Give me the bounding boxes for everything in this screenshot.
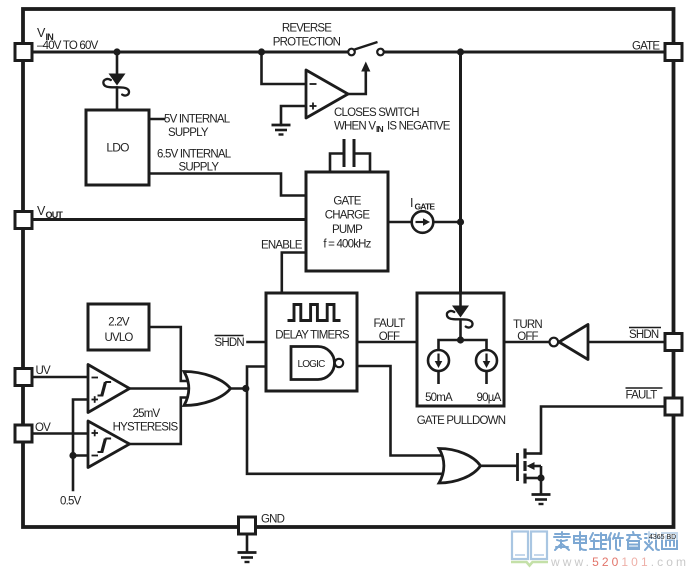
- watermark chinese characters: [554, 532, 677, 550]
- delay timers box U5: [266, 293, 357, 391]
- label FAULT right with overline: [626, 388, 663, 402]
- wire comparator output to switch arrow: [348, 71, 366, 94]
- svg-text:50mA: 50mA: [425, 392, 453, 404]
- node 0.5V junction: [69, 452, 76, 459]
- svg-text:LDO: LDO: [106, 141, 129, 155]
- label SHDN left with overline: [215, 336, 245, 350]
- svg-text:DELAY TIMERS: DELAY TIMERS: [275, 330, 350, 342]
- ground below MOSFET: [532, 495, 551, 505]
- svg-text:OUT: OUT: [46, 210, 64, 220]
- wire charge pump to IGATE source: [388, 221, 412, 224]
- svg-text:f = 400kHz: f = 400kHz: [323, 239, 371, 251]
- pin VOUT: [15, 212, 32, 229]
- internal diode D1 under VIN: [103, 74, 129, 96]
- node pulldown rail junction: [457, 336, 464, 343]
- gate charge pump box U3: [306, 172, 388, 271]
- pin VIN label: [37, 26, 99, 52]
- wire OR1 output to delay timers: [231, 367, 267, 389]
- label reverse protection: [273, 23, 341, 49]
- svg-text:REVERSE: REVERSE: [282, 23, 332, 35]
- logic gate inside delay timers: [291, 347, 335, 380]
- wire gate pulldown to inverter: [504, 341, 550, 344]
- svg-text:WHEN V: WHEN V: [334, 121, 376, 133]
- pin FAULT: [665, 398, 682, 415]
- current source 50mA: [428, 350, 449, 371]
- OR gate G2: [439, 449, 481, 484]
- wire VIN top rail right of switch: [384, 51, 664, 54]
- comparator UV A1: [88, 365, 130, 413]
- svg-text:LOGIC: LOGIC: [297, 359, 325, 370]
- wire comparator plus input to ground: [281, 106, 306, 125]
- svg-text:ENABLE: ENABLE: [261, 240, 303, 252]
- inverter U7: [550, 325, 589, 360]
- pin SHDN: [665, 334, 682, 351]
- label 25mV hysteresis: [113, 408, 179, 434]
- svg-text:GATE: GATE: [333, 196, 361, 208]
- svg-text:GND: GND: [261, 514, 285, 526]
- switch SW1 on VIN rail: [348, 42, 384, 55]
- wire OV pin to comparator: [33, 432, 88, 435]
- OR gate G1: [184, 372, 231, 406]
- svg-text:UV: UV: [36, 365, 52, 377]
- wire FAULT pin to MOSFET drain: [541, 407, 664, 454]
- wire UVLO to OR gate: [149, 327, 189, 381]
- wire gate vertical rail: [459, 52, 462, 293]
- watermark book icon: [511, 532, 548, 566]
- capacitor C1 flying cap on charge pump: [330, 139, 370, 172]
- svg-text:HYSTERESIS: HYSTERESIS: [113, 422, 179, 434]
- svg-text:4365 BD: 4365 BD: [649, 534, 676, 541]
- node VIN-comparator junction: [258, 48, 265, 55]
- wire 6.5V supply LDO to charge pump: [149, 174, 306, 196]
- svg-text:SHDN: SHDN: [215, 337, 245, 349]
- node IGATE junction: [457, 218, 464, 225]
- node OR1 output junction: [242, 385, 249, 392]
- wire ENABLE: [282, 253, 306, 294]
- svg-text:IS NEGATIVE: IS NEGATIVE: [387, 121, 451, 133]
- op-amp U2 reverse protection comparator: [306, 70, 348, 118]
- wire VIN junction to internal diode: [116, 52, 119, 74]
- comparator OV A2: [88, 421, 130, 468]
- svg-text:CHARGE: CHARGE: [325, 210, 371, 222]
- svg-text:SUPPLY: SUPPLY: [168, 127, 209, 139]
- gate pulldown box U6: [417, 293, 504, 406]
- wire diode to LDO: [116, 88, 119, 111]
- svg-text:GATE: GATE: [415, 202, 436, 212]
- LDO box U1: [86, 110, 149, 185]
- node MOSFET source junction: [537, 474, 544, 481]
- svg-text:CLOSES SWITCH: CLOSES SWITCH: [334, 107, 419, 119]
- svg-text:GATE PULLDOWN: GATE PULLDOWN: [417, 415, 506, 427]
- wire FAULT OFF delay timers to gate pulldown: [357, 341, 417, 344]
- svg-text:PUMP: PUMP: [332, 224, 363, 236]
- ground below GND pin: [238, 535, 257, 563]
- wire UV pin to comparator: [33, 376, 88, 379]
- wire delay timers to OR2 top input: [357, 366, 444, 456]
- svg-text:OV: OV: [35, 422, 51, 434]
- internal diode D2: [452, 306, 469, 318]
- wire inverter to SHDN pin: [588, 341, 664, 344]
- ground below comparator plus input: [272, 125, 291, 135]
- label SHDN right with overline: [629, 328, 661, 342]
- MOSFET Q1 fault output: [518, 449, 542, 495]
- pin VOUT label: [37, 204, 63, 220]
- svg-text:I: I: [410, 196, 413, 210]
- svg-text:90µA: 90µA: [477, 392, 502, 404]
- svg-text:5V INTERNAL: 5V INTERNAL: [164, 114, 231, 126]
- wire OV comparator output to OR gate: [130, 398, 190, 445]
- wire pulldown rail: [439, 340, 487, 350]
- node junction dots: [69, 48, 464, 459]
- wire 5V supply stub: [149, 118, 164, 121]
- svg-text:TURN: TURN: [513, 319, 542, 331]
- pin GATE: [665, 44, 682, 61]
- svg-text:2.2V: 2.2V: [108, 317, 130, 329]
- svg-text:FAULT: FAULT: [374, 318, 406, 330]
- label figure number 4365 BD: [647, 531, 680, 541]
- svg-text:OFF: OFF: [379, 331, 400, 343]
- pin GND: [239, 517, 256, 534]
- wire OR1 node down to OR2: [247, 389, 444, 474]
- svg-text:GATE: GATE: [632, 41, 660, 53]
- wire VOUT to charge pump: [33, 218, 306, 221]
- wire diode to rail: [459, 320, 462, 341]
- svg-text:–40V TO 60V: –40V TO 60V: [37, 40, 99, 52]
- svg-text:25mV: 25mV: [133, 408, 161, 420]
- svg-text:PROTECTION: PROTECTION: [273, 37, 341, 49]
- clock waveform icon: [288, 305, 341, 321]
- wire 0.5V reference vertical: [73, 400, 88, 491]
- svg-text:6.5V INTERNAL: 6.5V INTERNAL: [157, 149, 232, 161]
- pin OV: [15, 425, 32, 442]
- wire into pulldown diode: [459, 293, 462, 306]
- svg-text:OFF: OFF: [517, 331, 538, 343]
- pin VIN: [15, 44, 32, 61]
- wire UV comparator output: [130, 387, 190, 390]
- pin UV: [15, 369, 32, 386]
- svg-text:SUPPLY: SUPPLY: [179, 162, 220, 174]
- label closes switch: [334, 107, 451, 134]
- svg-text:0.5V: 0.5V: [60, 496, 82, 508]
- wire IGATE source to gate rail: [434, 221, 461, 224]
- wire OV comparator minus to 0.5V: [73, 454, 88, 457]
- arrow from comparator to switch: [361, 62, 370, 72]
- wire SHDN stub to delay timers: [248, 341, 267, 344]
- node VIN-diode junction: [113, 48, 120, 55]
- label FAULT OFF: [374, 318, 406, 343]
- label turn off: [513, 319, 542, 343]
- svg-text:www.520101.com: www.520101.com: [550, 555, 687, 569]
- node gate rail top junction: [457, 48, 464, 55]
- wire OR2 output to MOSFET gate: [481, 464, 518, 467]
- label 6.5V internal supply: [157, 149, 232, 174]
- wire comparator minus input from VIN: [262, 52, 307, 84]
- wire VIN top rail left of switch: [33, 51, 348, 54]
- svg-text:IN: IN: [376, 124, 384, 134]
- UVLO box U4: [88, 304, 149, 350]
- svg-text:FAULT: FAULT: [626, 390, 658, 402]
- current source 90uA: [476, 350, 497, 371]
- current source IGATE: [410, 196, 435, 233]
- label 5V internal supply: [164, 114, 231, 140]
- svg-text:UVLO: UVLO: [104, 332, 133, 344]
- svg-text:SHDN: SHDN: [629, 329, 659, 341]
